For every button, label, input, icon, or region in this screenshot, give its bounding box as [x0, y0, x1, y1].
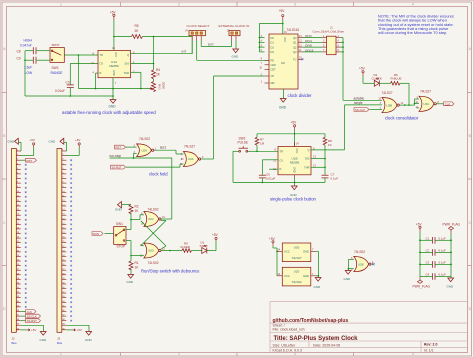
wire SW1 bottom throw [126, 241, 132, 261]
svg-text:GND: GND [292, 167, 295, 173]
svg-text:GND: GND [85, 338, 93, 342]
svg-text:VCC: VCC [284, 250, 290, 254]
power +5V (D1) [212, 233, 219, 250]
svg-text:0.01uF: 0.01uF [266, 176, 276, 180]
power +5V (divider) [279, 9, 286, 20]
svg-text:R-RED: R-RED [181, 245, 191, 249]
svg-text:C8: C8 [17, 49, 21, 53]
svg-text:3: 3 [294, 3, 296, 7]
power +5V (U1A) [110, 10, 117, 20]
wire reset pin drop [96, 73, 99, 89]
svg-text:74LS27: 74LS27 [382, 91, 393, 95]
note text [378, 14, 454, 35]
power unit U30 74LS27 [277, 243, 316, 262]
svg-text:THR: THR [304, 165, 309, 169]
wire U1B bottom to rail [294, 178, 296, 182]
svg-text:D0: D0 [271, 36, 275, 40]
switch SW2 PULSE [233, 136, 257, 152]
wire J2 pin1 [20, 150, 23, 152]
svg-text:SS-CLK: SS-CLK [27, 315, 37, 319]
wire caps left rail [24, 51, 114, 97]
power flag (top) [443, 222, 461, 233]
svg-text:74LS161: 74LS161 [287, 28, 300, 32]
counter U6 74LS161 [259, 28, 302, 89]
resistor R8 [323, 134, 332, 175]
svg-text:+5V: +5V [75, 138, 80, 142]
gate U2C 74LS02 [141, 208, 165, 227]
timer U1B NE556 [273, 142, 316, 179]
resistor R9 R-RED [181, 241, 202, 252]
label DIV8 [303, 44, 323, 48]
svg-text:Bus: Bus [12, 341, 18, 345]
svg-text:GND: GND [344, 277, 352, 281]
svg-text:single-pulse clock button: single-pulse clock button [270, 197, 317, 202]
svg-text:2: 2 [178, 352, 180, 356]
svg-text:SW3: SW3 [52, 66, 59, 70]
svg-text:GND: GND [109, 104, 117, 108]
svg-text:U3A: U3A [188, 157, 194, 161]
svg-text:0.047uF: 0.047uF [20, 44, 32, 48]
ground (power units) [314, 278, 322, 290]
switch SW1 STOP [114, 222, 126, 249]
svg-text:clock hold: clock hold [149, 172, 168, 177]
capacitor C1 [420, 236, 451, 243]
svg-text:74LS27: 74LS27 [420, 90, 431, 94]
gate U2A 74LS02 [134, 137, 157, 157]
capacitor C4 [420, 273, 451, 280]
svg-text:VCC: VCC [283, 37, 286, 42]
svg-text:GND: GND [112, 70, 115, 76]
label DIV16 [303, 48, 323, 52]
svg-text:HIGH: HIGH [24, 39, 33, 43]
svg-text:U30: U30 [294, 245, 300, 249]
svg-text:0.01uF: 0.01uF [55, 89, 65, 93]
wire CV to C3 [70, 63, 98, 65]
wire J5 pin1 [231, 41, 233, 47]
ground (U1B) [290, 182, 298, 197]
svg-text:Size: USLetter: Size: USLetter [273, 343, 296, 347]
ground (J2 pin39) [21, 325, 47, 342]
svg-text:Q3: Q3 [293, 50, 297, 54]
ground (R2 top) [115, 202, 131, 212]
svg-text:C3: C3 [426, 260, 430, 264]
svg-text:Run/Stop switch with debounce: Run/Stop switch with debounce [141, 268, 200, 273]
gate U3B 74LS27 [378, 91, 404, 113]
global label RUN (left of SW1) [92, 232, 114, 237]
power flag (bottom) [413, 277, 431, 289]
svg-text:Q2: Q2 [293, 45, 297, 49]
svg-text:will occur during the Microcod: will occur during the Microcode T0 step. [378, 30, 447, 35]
svg-text:U3B: U3B [387, 103, 393, 107]
wire +5V rail to R7 R8 [257, 130, 325, 147]
svg-text:LOW: LOW [25, 71, 34, 75]
capacitor C2 [420, 248, 451, 255]
capacitor C9 [17, 56, 50, 63]
svg-text:R4: R4 [156, 68, 160, 72]
svg-text:CLOCK SELECT: CLOCK SELECT [187, 24, 210, 28]
wire J4 pin2 to divider CP [197, 41, 269, 61]
label DIV2 [303, 34, 323, 38]
svg-text:NE556: NE556 [109, 64, 119, 68]
wire U2B inputs tied [348, 260, 354, 271]
svg-text:GND: GND [447, 284, 455, 288]
svg-text:PWR_FLAG: PWR_FLAG [443, 222, 461, 226]
svg-text:+5V: +5V [279, 9, 286, 13]
wire J1 common rail [341, 38, 383, 101]
svg-text:74LS27: 74LS27 [184, 145, 195, 149]
svg-text:TR: TR [280, 149, 284, 153]
gate U2D 74LS02 [140, 243, 166, 265]
svg-text:run-stop: run-stop [110, 154, 122, 158]
svg-text:RST: RST [116, 146, 122, 150]
svg-text:RV1: RV1 [158, 84, 162, 90]
svg-text:+5V: +5V [110, 10, 117, 14]
svg-text:VCC: VCC [114, 52, 117, 57]
svg-text:0.1uF: 0.1uF [439, 248, 446, 252]
svg-text:+5V: +5V [212, 233, 219, 237]
svg-text:astable: astable [354, 97, 365, 101]
svg-text:74LS02: 74LS02 [148, 261, 159, 265]
resistor R2 [129, 205, 139, 214]
svg-text:C2: C2 [426, 248, 430, 252]
wire U1B R pin stub [269, 168, 278, 170]
svg-text:PULSE: PULSE [238, 140, 248, 144]
svg-text:U3C: U3C [424, 102, 430, 106]
svg-text:Bus: Bus [57, 341, 63, 345]
svg-text:+5V: +5V [31, 328, 36, 332]
connector J4 CLOCK SELECT [185, 24, 210, 41]
svg-text:NE556: NE556 [290, 161, 300, 165]
global label SS-CLK [354, 108, 382, 113]
svg-text:R1: R1 [135, 261, 139, 265]
resistor R7 [255, 134, 264, 152]
wire SW2 left drop to rail [233, 151, 295, 183]
svg-text:U2A: U2A [142, 148, 148, 152]
gate U3C 74LS27 [415, 90, 439, 112]
svg-text:SS-RST: SS-RST [112, 166, 123, 170]
svg-text:Q1: Q1 [293, 41, 297, 45]
global label CLK [444, 102, 455, 106]
wire feedback left drop [78, 55, 80, 89]
ground (J3 pin39) [66, 325, 92, 342]
svg-text:File: clock.kicad_sch: File: clock.kicad_sch [273, 328, 305, 332]
svg-text:EXT: EXT [208, 43, 214, 47]
svg-text:+5V: +5V [269, 237, 276, 241]
wire U2C out up (run-stop) [161, 158, 172, 219]
svg-text:Title: SAP-Plus System Clock: Title: SAP-Plus System Clock [274, 336, 359, 342]
svg-text:GND: GND [127, 280, 135, 284]
LED D1 STOP [200, 241, 217, 254]
svg-text:GND: GND [8, 140, 16, 144]
ground (caps) [447, 277, 455, 289]
wire U1B Q out up [311, 105, 382, 150]
power +5V (J3 pin2) [66, 138, 80, 156]
svg-text:1K: 1K [328, 143, 332, 147]
wire U2D out [161, 250, 182, 252]
svg-text:R-BLUE: R-BLUE [391, 76, 402, 80]
svg-text:R: R [100, 71, 102, 75]
global label SS-RST (J2 pin38) [21, 319, 41, 323]
global label SS-RST [111, 164, 184, 170]
wire R5 drop to R4 chain [153, 37, 155, 70]
svg-text:EXTERNAL CLOCK IN: EXTERNAL CLOCK IN [219, 24, 250, 28]
wire J4 pin1 to INT [191, 41, 193, 54]
svg-text:0.1uF: 0.1uF [439, 236, 446, 240]
svg-text:74LS02: 74LS02 [139, 137, 150, 141]
wire U2A out with RST-bar label [154, 146, 184, 154]
svg-text:STOP: STOP [117, 245, 126, 249]
svg-text:Q: Q [127, 53, 129, 57]
svg-text:Date: 2025-04-05: Date: 2025-04-05 [313, 343, 340, 347]
capacitor C8 [17, 47, 50, 54]
svg-text:clock divider: clock divider [288, 93, 313, 98]
svg-text:CLK: CLK [445, 102, 451, 106]
power +5V (J2 pin2) [21, 138, 35, 156]
svg-text:74LS27: 74LS27 [291, 256, 302, 260]
ground (U2B) [344, 271, 352, 281]
op-amp U1A (NE556 timer) [91, 46, 135, 85]
svg-text:C3: C3 [66, 81, 70, 85]
svg-text:RST: RST [160, 146, 166, 150]
wire R2 to U2C input [130, 213, 144, 230]
wire +5V to VCC and D inputs [259, 20, 284, 52]
no-connect TC [302, 58, 304, 60]
svg-text:C1: C1 [426, 236, 430, 240]
potentiometer RV1 [150, 79, 166, 92]
svg-text:GND: GND [303, 274, 309, 278]
wire U3B out to U3C [399, 99, 419, 108]
svg-text:PWR_FLAG: PWR_FLAG [413, 284, 431, 288]
no-connects J3 [70, 159, 72, 321]
wire SW2 to U1B TR [257, 150, 278, 152]
svg-text:D2: D2 [271, 45, 275, 49]
label run-stop [110, 154, 172, 159]
wire J4 pin3 EXT [201, 41, 231, 47]
svg-text:CV: CV [100, 62, 104, 66]
global label RST [115, 145, 137, 150]
power unit U20 74LS02 [277, 267, 316, 286]
label DIV4 [303, 39, 323, 43]
svg-text:+5V: +5V [30, 138, 35, 142]
svg-text:astable free-running clock wit: astable free-running clock with adjustab… [62, 110, 156, 115]
svg-text:Q0: Q0 [293, 36, 297, 40]
resistor R5 [114, 24, 192, 54]
power +5V (power units) [269, 237, 278, 276]
svg-text:CP: CP [271, 74, 275, 78]
ground (divider) [279, 89, 287, 109]
svg-text:PE: PE [271, 59, 275, 63]
svg-text:RST: RST [27, 159, 33, 163]
svg-text:74LS02: 74LS02 [354, 250, 365, 254]
svg-text:+5V: +5V [291, 121, 298, 125]
svg-text:0.1uF: 0.1uF [439, 260, 446, 264]
svg-text:GND: GND [314, 285, 322, 289]
wire bottom feedback rail [79, 88, 150, 90]
no-connects J2 [25, 164, 27, 308]
svg-text:R2: R2 [135, 205, 139, 209]
svg-text:R5: R5 [135, 24, 139, 28]
svg-text:VCC: VCC [284, 274, 290, 278]
wire U2D in2 [131, 255, 144, 257]
global label CLK (J2 pin36) [21, 310, 36, 314]
power +5V (U1B) [291, 121, 298, 130]
svg-text:THR: THR [124, 71, 129, 75]
label astable [354, 97, 365, 101]
svg-text:SS-RST: SS-RST [27, 319, 38, 323]
connector J2 pins [16, 150, 21, 331]
wire cross-couple X [141, 221, 166, 250]
power +5V (J3 pin40) [66, 328, 82, 332]
wire SW1 top throw [126, 229, 131, 231]
connector J3 Bus [57, 149, 62, 333]
svg-text:SS-CLK: SS-CLK [355, 108, 365, 112]
ground (J5) [232, 41, 240, 59]
svg-text:GND: GND [115, 208, 123, 212]
connector J5 EXTERNAL CLOCK IN [219, 24, 250, 41]
connector J1 [313, 25, 345, 54]
svg-text:GND: GND [49, 140, 57, 144]
LED D2 CLOCK [372, 73, 391, 87]
svg-text:D3: D3 [271, 50, 275, 54]
resistor R6 R-BLUE [391, 73, 410, 85]
svg-text:TR: TR [100, 53, 104, 57]
svg-text:Q: Q [307, 148, 309, 152]
wire R6 drop to output node [408, 83, 410, 106]
wire THR drop [131, 72, 141, 88]
wire U3A out up to divider MR [201, 76, 265, 159]
ground (U1A) [109, 78, 117, 109]
capacitor C3 [55, 64, 74, 97]
power +5V (caps) [416, 222, 423, 231]
global label SS-CLK (J2 pin37) [21, 314, 41, 318]
svg-text:RUN: RUN [93, 232, 99, 236]
svg-text:1M: 1M [260, 141, 265, 145]
svg-text:TC: TC [293, 57, 297, 61]
svg-text:4: 4 [412, 3, 414, 7]
wire power unit grounds [316, 251, 319, 277]
svg-text:GND: GND [40, 338, 48, 342]
svg-text:R: R [280, 167, 282, 171]
svg-text:GND: GND [303, 250, 309, 254]
title block [270, 302, 468, 353]
global label RST (J2 pin3) [21, 158, 37, 163]
svg-text:1: 1 [60, 352, 62, 356]
svg-text:DIS: DIS [125, 62, 130, 66]
ground (J2 pin1) [8, 138, 22, 151]
svg-text:D1: D1 [271, 41, 275, 45]
svg-text:CLK: CLK [27, 310, 33, 314]
label single [354, 101, 363, 105]
svg-text:INT: INT [182, 50, 187, 54]
wire DIS THR to R8 [311, 159, 325, 168]
gate U3A 74LS27 [181, 145, 204, 167]
capacitor C3b [420, 260, 451, 267]
svg-text:+5V: +5V [77, 328, 82, 332]
svg-text:GND: GND [279, 105, 287, 109]
capacitor C7 [295, 173, 338, 183]
svg-text:74LS02: 74LS02 [148, 208, 159, 212]
gate U2B 74LS02 unused [351, 250, 374, 272]
svg-text:SPDT: SPDT [52, 43, 60, 47]
svg-text:MR: MR [271, 81, 275, 85]
svg-text:C9: C9 [17, 56, 21, 60]
resistor R4 [152, 68, 161, 79]
svg-text:RANGE: RANGE [51, 71, 64, 75]
svg-text:CV: CV [280, 158, 284, 162]
svg-text:U20: U20 [294, 270, 300, 274]
power +5V (D2) [359, 67, 374, 84]
svg-text:CET: CET [271, 68, 277, 72]
svg-text:CEP: CEP [271, 63, 277, 67]
svg-text:Id: 1/1: Id: 1/1 [424, 348, 434, 352]
connector J3 pins [62, 150, 67, 331]
svg-text:single: single [354, 101, 363, 105]
svg-text:KiCad E.D.A. 9.0.3: KiCad E.D.A. 9.0.3 [273, 348, 302, 352]
svg-text:U2D: U2D [148, 249, 154, 253]
switch SW3 RANGE [50, 43, 64, 75]
connector J2 Bus [12, 149, 17, 333]
resistor R1 [129, 261, 139, 270]
svg-text:U2C: U2C [148, 217, 154, 221]
wire SW3 out to U1A [64, 54, 98, 56]
svg-text:200K: 200K [162, 82, 166, 89]
svg-text:DIS: DIS [305, 157, 310, 161]
svg-text:1: 1 [60, 3, 62, 7]
svg-text:Conn_02x04_Odd_Even: Conn_02x04_Odd_Even [313, 29, 345, 33]
wire +5V to U1A VCC [113, 20, 115, 50]
svg-text:clock consolidator: clock consolidator [385, 115, 419, 120]
svg-text:+5V: +5V [359, 67, 366, 71]
svg-text:0.1uF: 0.1uF [439, 273, 446, 277]
svg-text:SW1: SW1 [116, 222, 123, 226]
no-connect U2B out [371, 263, 375, 265]
svg-text:C4: C4 [426, 273, 430, 277]
svg-text:+5V: +5V [416, 222, 423, 226]
wire U1A Q out (INT) [131, 53, 193, 55]
svg-text:GND: GND [232, 55, 240, 59]
ground (J3 pin1) [49, 138, 67, 151]
svg-text:74LS02: 74LS02 [291, 280, 302, 284]
wire DIS to R4 [131, 63, 155, 65]
wire U3C out [436, 103, 443, 105]
svg-text:0.1uF: 0.1uF [331, 176, 339, 180]
svg-text:2: 2 [178, 3, 180, 7]
svg-text:VCC: VCC [295, 148, 298, 153]
svg-text:U2B: U2B [358, 262, 364, 266]
wire cap rails [419, 232, 452, 277]
ground (R1) [127, 269, 135, 284]
power +5V (J2 pin40) [21, 328, 37, 332]
svg-text:U6: U6 [281, 61, 285, 65]
capacitor C6 [259, 160, 278, 183]
svg-text:Rev: 2.0: Rev: 2.0 [424, 343, 437, 347]
